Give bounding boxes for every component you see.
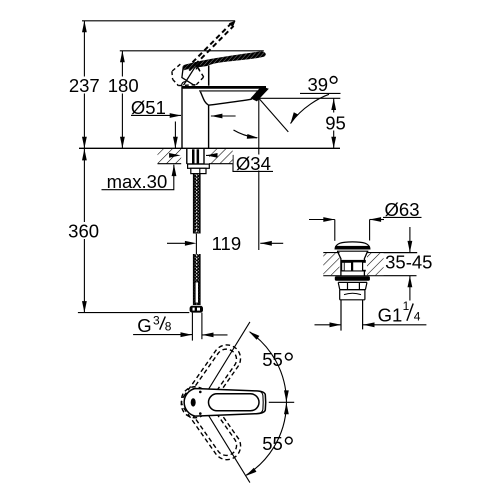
svg-text:55: 55	[262, 349, 283, 370]
svg-text:360: 360	[68, 220, 99, 241]
svg-text:Ø51: Ø51	[131, 97, 166, 118]
svg-text:G1: G1	[378, 304, 403, 325]
svg-text:55: 55	[262, 433, 283, 454]
svg-text:1: 1	[403, 299, 410, 313]
svg-text:max.30: max.30	[107, 171, 168, 192]
svg-text:35-45: 35-45	[385, 251, 432, 272]
svg-text:G: G	[137, 315, 151, 336]
svg-text:8: 8	[165, 319, 172, 333]
svg-text:3: 3	[153, 313, 160, 327]
svg-text:119: 119	[212, 233, 242, 254]
svg-text:95: 95	[325, 113, 346, 134]
svg-text:4: 4	[414, 310, 421, 324]
svg-text:237: 237	[69, 75, 100, 96]
svg-text:39: 39	[308, 74, 329, 95]
svg-text:Ø34: Ø34	[236, 153, 271, 174]
svg-text:Ø63: Ø63	[385, 199, 420, 220]
svg-text:180: 180	[108, 75, 139, 96]
